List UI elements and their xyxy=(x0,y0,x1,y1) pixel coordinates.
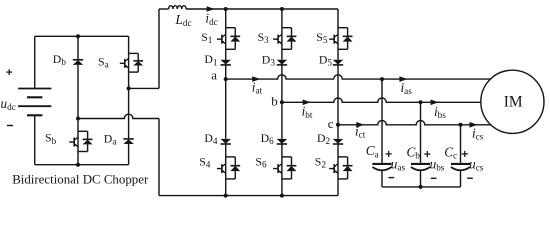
wire phase b line xyxy=(282,98,481,102)
label c xyxy=(328,116,334,131)
wire leg a collector xyxy=(225,9,227,28)
junction dot chopper bottom rail / S_b branch xyxy=(76,163,80,167)
inductor L_dc xyxy=(159,6,186,9)
svg-text:b: b xyxy=(271,93,278,108)
label D_b xyxy=(53,52,67,67)
wire chopper bottom rail xyxy=(35,164,129,166)
junction dot phase b / C_b xyxy=(419,100,423,104)
junction dot chopper mid node xyxy=(76,117,80,121)
wire bottom dc rail xyxy=(159,195,338,197)
wire phase a line xyxy=(226,75,491,79)
capacitor C_b xyxy=(411,102,430,187)
arrow i_cs xyxy=(470,122,478,128)
label D3 xyxy=(262,52,276,67)
node c xyxy=(336,123,340,127)
label IM xyxy=(504,93,523,110)
transistor S_b xyxy=(69,131,92,151)
label + battery xyxy=(6,69,12,75)
wire D_a to bottom rail xyxy=(128,144,130,165)
transistor S2 xyxy=(329,157,352,179)
wire D_b to mid node xyxy=(77,65,79,131)
label S6 xyxy=(255,155,267,170)
wire leg b collector xyxy=(281,9,283,28)
label a xyxy=(211,68,217,83)
junction dot top rail leg2 xyxy=(280,7,284,11)
wire S_a collector xyxy=(128,36,130,53)
label u_cs xyxy=(469,156,484,172)
label + C_a xyxy=(386,151,392,157)
junction dot S_a emitter node xyxy=(127,86,131,90)
wire chopper output lower (to inverter negative rail) xyxy=(78,114,159,195)
wire D6 to S6 xyxy=(281,144,283,157)
label i_bt xyxy=(302,104,313,120)
label S3 xyxy=(258,30,270,45)
label S5 xyxy=(316,30,328,45)
label C_c xyxy=(444,144,457,160)
wire S1 to D1 xyxy=(225,49,227,59)
svg-text:IM: IM xyxy=(504,93,523,110)
label Bidirectional DC Chopper xyxy=(12,173,149,187)
label - C_a xyxy=(389,177,395,179)
node b xyxy=(280,100,284,104)
arrow i_dc xyxy=(207,6,215,12)
junction dot star rail C_b xyxy=(419,185,423,189)
label b xyxy=(271,93,278,108)
label - C_c xyxy=(467,177,473,179)
label D1 xyxy=(204,52,218,67)
label u_bs xyxy=(430,156,445,172)
label D4 xyxy=(204,131,218,146)
junction dot bottom rail leg1 xyxy=(224,194,228,198)
label S_b xyxy=(45,131,57,146)
wire S5 to D5 xyxy=(337,49,339,59)
wire battery negative lead xyxy=(34,115,36,164)
transistor S5 xyxy=(329,28,352,50)
label S2 xyxy=(315,155,327,170)
junction dot phase a / C_a xyxy=(380,77,384,81)
wire capacitor star rail xyxy=(382,186,461,188)
arrow i_bs xyxy=(431,100,439,106)
arrow i_ct xyxy=(356,122,364,128)
wire D_b branch upper xyxy=(77,36,79,60)
junction dot phase c / C_c xyxy=(459,123,463,127)
capacitor C_c xyxy=(451,125,470,187)
diode D_a xyxy=(123,139,133,144)
junction dot bottom rail leg2 xyxy=(280,194,284,198)
capacitor C_a xyxy=(372,79,391,187)
wire chopper output upper (to inductor) xyxy=(129,9,159,88)
wire top dc rail xyxy=(186,8,338,10)
transistor S6 xyxy=(273,157,296,179)
label C_a xyxy=(366,143,379,159)
wire S6 emitter xyxy=(281,179,283,196)
svg-text:a: a xyxy=(211,68,217,83)
wire D4 to S4 xyxy=(225,144,227,157)
wire node a to D4 xyxy=(225,79,227,139)
wire D2 to S2 xyxy=(337,144,339,157)
wire S_b emitter xyxy=(77,152,79,165)
wire leg c collector xyxy=(337,9,339,28)
transistor S4 xyxy=(217,157,240,179)
wire S_a emitter to node xyxy=(128,72,130,88)
transistor S_a xyxy=(120,53,143,72)
diode D1 xyxy=(221,60,231,65)
label D5 xyxy=(319,52,333,67)
label S4 xyxy=(199,155,211,170)
diode D6 xyxy=(277,139,287,144)
label C_b xyxy=(407,144,421,160)
wire D_a branch xyxy=(128,88,130,138)
node a xyxy=(224,77,228,81)
wire battery positive lead xyxy=(34,36,36,88)
label u_dc xyxy=(1,96,16,112)
diode D5 xyxy=(333,60,343,65)
label S_a xyxy=(98,55,109,70)
wire D5 to node c xyxy=(337,65,339,125)
label u_as xyxy=(391,156,406,172)
label D2 xyxy=(317,131,331,146)
label - battery xyxy=(7,125,13,127)
transistor S3 xyxy=(273,28,296,50)
junction dot top rail leg1 xyxy=(224,7,228,11)
diode D2 xyxy=(333,139,343,144)
arrow i_as xyxy=(399,76,407,82)
wire node b to D6 xyxy=(281,102,283,139)
svg-text:Bidirectional DC Chopper: Bidirectional DC Chopper xyxy=(12,173,149,187)
label i_ct xyxy=(355,123,366,139)
battery u_dc plates xyxy=(18,89,51,116)
transistor S1 xyxy=(217,28,240,50)
label S1 xyxy=(201,30,213,45)
arrow i_bt xyxy=(303,100,311,106)
wire node c to D2 xyxy=(337,125,339,139)
diode D_b xyxy=(73,60,83,65)
label D6 xyxy=(261,131,275,146)
label L_dc xyxy=(175,12,192,28)
wire chopper top rail xyxy=(35,35,129,37)
diode D4 xyxy=(221,139,231,144)
wire S3 to D3 xyxy=(281,49,283,59)
label + C_b xyxy=(424,151,430,157)
label D_a xyxy=(104,131,117,146)
svg-text:c: c xyxy=(328,116,334,131)
wire D3 to node b xyxy=(281,65,283,102)
label i_at xyxy=(252,80,263,96)
wire D1 to node a xyxy=(225,65,227,79)
label i_as xyxy=(401,80,413,96)
diode D3 xyxy=(277,60,287,65)
wire S2 emitter xyxy=(337,179,339,196)
label - C_b xyxy=(431,177,437,179)
junction dot chopper top rail / D_b branch xyxy=(76,34,80,38)
wire phase c line xyxy=(338,121,491,125)
label i_cs xyxy=(472,125,484,141)
label i_bs xyxy=(434,104,446,120)
arrow i_at xyxy=(252,76,260,82)
motor IM circle xyxy=(481,70,544,133)
wire S4 emitter xyxy=(225,179,227,196)
label + C_c xyxy=(462,151,468,157)
label i_dc xyxy=(205,11,217,27)
